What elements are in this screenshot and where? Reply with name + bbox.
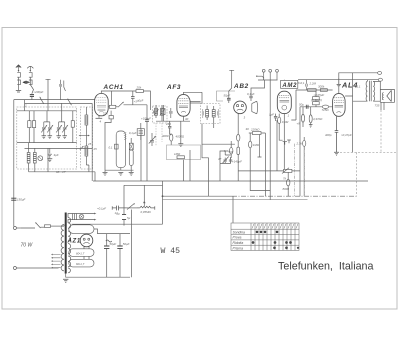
pilot lamp wires [68, 214, 95, 223]
dashed line right [340, 110, 397, 196]
svg-text:AF3: AF3 [166, 84, 181, 91]
svg-text:5µ: 5µ [127, 216, 131, 220]
AC marks [106, 240, 112, 242]
speaker plug rings [378, 71, 383, 81]
fuse [45, 225, 61, 228]
svg-text:22k: 22k [102, 111, 108, 115]
svg-text:≈0,1µF: ≈0,1µF [97, 207, 106, 211]
capacitor 100pF grid [131, 91, 135, 105]
label 4.37k [313, 117, 323, 121]
label 1u [117, 211, 121, 215]
svg-text:W 45: W 45 [161, 247, 181, 256]
AF3 left resistor [162, 105, 165, 121]
winding loop b [69, 259, 94, 267]
wire tap out [25, 147, 93, 149]
oscillator box dashed [80, 107, 92, 169]
wave trap arrow [23, 81, 31, 84]
label 70W [21, 242, 34, 248]
pin label 3 [244, 115, 246, 119]
dashdot verticals right [295, 144, 305, 197]
table header ticks [252, 224, 298, 229]
label 400pF [325, 133, 332, 137]
osc coil L4 [85, 143, 89, 165]
cap 400pF AL4 [335, 116, 339, 152]
svg-text:50µF: 50µF [110, 242, 117, 246]
svg-text:50pF: 50pF [224, 94, 231, 98]
filament loop top [69, 225, 94, 234]
label 50u [299, 103, 304, 107]
svg-text:60•1,7: 60•1,7 [76, 252, 85, 256]
svg-text:0,95MΩ: 0,95MΩ [141, 210, 152, 214]
socket jacks antenna [17, 73, 32, 85]
svg-text:ACH1: ACH1 [103, 84, 124, 91]
wire AB2 grid row [202, 143, 235, 145]
label 0.1M AM2 [282, 120, 289, 124]
wire to bus [31, 96, 33, 99]
label 0.1 top [297, 81, 305, 85]
capacitor 200pF [30, 95, 34, 97]
svg-text:≈100µF: ≈100µF [133, 98, 144, 104]
svg-text:25: 25 [93, 147, 98, 151]
label 735 [375, 103, 380, 107]
caps 47+140pF [220, 151, 232, 164]
resistor 50k b [230, 141, 233, 158]
coupling arrow [79, 135, 90, 137]
arrow tap exit [80, 146, 84, 150]
wire speaker down [381, 102, 384, 110]
label 3000 [162, 134, 169, 138]
label ACH1 [103, 84, 124, 91]
trimmer osc [149, 136, 156, 146]
speaker voice coil [382, 93, 383, 100]
label AB2 [233, 83, 249, 90]
label 0.1uF AB2 [247, 92, 255, 96]
ground AL4 [334, 152, 339, 155]
svg-text:1MΩ: 1MΩ [253, 143, 260, 147]
label 7k [283, 177, 287, 181]
padder block [129, 143, 133, 150]
ground osc [118, 172, 123, 175]
svg-text:0,1µF: 0,1µF [129, 131, 137, 135]
headphone symbol [252, 101, 258, 114]
vertical x124 [123, 185, 125, 225]
label 25 [87, 142, 92, 146]
svg-text:≈0,05µF: ≈0,05µF [314, 93, 325, 97]
switch osc [118, 102, 147, 120]
resistor 1M vert [249, 133, 252, 148]
volume pot cap [112, 206, 126, 211]
pin label 2 [24, 104, 27, 108]
wires output transformer [345, 73, 380, 153]
antenna terminal [16, 65, 21, 72]
label AF3 [166, 84, 181, 91]
cap 263 [168, 121, 171, 134]
pot left terminal [111, 206, 113, 210]
B+ wire [94, 229, 130, 234]
bus y199 [163, 199, 308, 201]
arrow mains [127, 203, 138, 210]
label 1uF AM2 [269, 112, 274, 116]
transformer primary [61, 225, 64, 271]
IF1 trimmer arrows [154, 109, 165, 115]
label 140pF [232, 159, 242, 163]
svg-text:70 W: 70 W [21, 242, 34, 248]
wire box row [17, 142, 77, 144]
wire C4 top [59, 111, 65, 122]
label 0.1uF osc [129, 131, 137, 135]
svg-text:3: 3 [244, 115, 246, 119]
ground C4b [62, 136, 67, 139]
ground x131 [129, 170, 134, 175]
svg-text:(0,05µF): (0,05µF) [311, 98, 322, 102]
resistor bias a [302, 107, 305, 127]
svg-text:+8: +8 [297, 122, 301, 126]
pilot lamp [79, 214, 84, 219]
coil L2 [33, 148, 36, 163]
pin label 25b [93, 147, 98, 151]
IF1 cap a [153, 108, 156, 115]
capacitor 100pF osc [145, 104, 150, 146]
cathode T bar [96, 117, 103, 119]
svg-text:1MΩ: 1MΩ [174, 152, 181, 156]
label 30 [246, 127, 250, 131]
band switch S1b [67, 98, 71, 105]
label W45 [161, 247, 181, 256]
label 150uF [17, 198, 25, 202]
IF can 2 dashed [201, 104, 220, 124]
tube AL4 [333, 94, 346, 117]
resistor in loop [115, 144, 119, 149]
IF2 cap b [218, 109, 219, 118]
verticals mid [48, 114, 284, 223]
svg-text:60…17: 60…17 [56, 170, 66, 174]
wire filter right [84, 210, 132, 278]
svg-text:0,1M: 0,1M [282, 120, 289, 124]
label 263 [165, 122, 171, 126]
label +8 [297, 122, 301, 126]
svg-text:30: 30 [185, 117, 189, 121]
wire earth branch [30, 77, 33, 94]
filter cap 2 [117, 234, 122, 278]
cap 150uF [11, 198, 16, 200]
wire ACH1 plate right [190, 101, 201, 103]
label 20k plate [136, 86, 142, 90]
wire plate to C [143, 91, 150, 104]
label 1.1 [357, 84, 361, 88]
ground x105 [103, 170, 108, 175]
wire ACH1 grid stubs [99, 91, 152, 170]
output transformer core [369, 81, 371, 101]
label 0.1uF mains [97, 207, 106, 211]
label 200pF [34, 90, 44, 94]
svg-text:3µF: 3µF [54, 153, 59, 157]
resistor 20k plate [136, 90, 143, 93]
wire speaker line2 [298, 79, 378, 81]
resistor 0.1M AM2 [278, 114, 283, 141]
cap on x124 [122, 215, 126, 220]
label AZ1 [67, 239, 81, 245]
tube AZ1 [80, 234, 93, 247]
svg-text:1µF: 1µF [269, 112, 274, 116]
ground transformer [63, 279, 68, 282]
mains plug bottom [13, 267, 58, 270]
resistor R2a [28, 111, 31, 143]
ground AF3 [178, 144, 183, 147]
resistor R3 [71, 111, 74, 143]
label AM2 box [281, 80, 298, 88]
filter cap 1 [104, 234, 109, 278]
box 0.05uF a [313, 91, 320, 99]
speaker frame [380, 90, 394, 103]
svg-text:X•0,1: X•0,1 [297, 81, 305, 85]
mains plug top [13, 227, 21, 230]
svg-text:50µ: 50µ [299, 103, 304, 107]
svg-text:0,1: 0,1 [109, 145, 113, 149]
resistor 2.7k [303, 137, 306, 196]
resistor 4000 [170, 134, 173, 145]
terminal T [229, 70, 234, 94]
trimmer C3a [41, 122, 47, 136]
stub terminal 220k [258, 135, 262, 158]
wire x300 down [299, 107, 301, 196]
label 1M vert [253, 143, 260, 147]
label 50k AB2 [229, 150, 234, 154]
resistor 40 [108, 105, 118, 108]
phono input stub [256, 76, 264, 78]
ground antenna [16, 91, 21, 93]
svg-text:AL4: AL4 [341, 81, 358, 90]
tube AM2 [277, 91, 291, 113]
IF1 coil b [161, 108, 164, 115]
tube AF3 [177, 95, 190, 117]
label 1M box [174, 152, 181, 156]
label loop a [76, 252, 85, 256]
wire AL4 top [339, 73, 378, 94]
grid return wire [250, 148, 270, 200]
svg-text:220kΩ: 220kΩ [250, 128, 260, 132]
label 0.1 loop [109, 145, 113, 149]
cap 1uF AM2 [274, 114, 277, 121]
grid line AL4 [291, 90, 332, 120]
coupling cap C2 [59, 80, 66, 100]
resistor bias b [309, 107, 312, 125]
heater wire [72, 181, 163, 224]
IF1 coil a [155, 108, 158, 115]
label 300k [318, 85, 325, 89]
title Telefunken Italiana [278, 261, 374, 273]
wire cathode row [300, 106, 333, 108]
table dots row1 [256, 231, 279, 234]
svg-text:Sondina: Sondina [233, 230, 246, 234]
tube ACH1 [95, 94, 109, 116]
svg-text:400p: 400p [325, 133, 332, 137]
label 60-17 [56, 170, 66, 174]
IF can 1 dashed [153, 106, 167, 123]
svg-text:30: 30 [246, 127, 250, 131]
coil L1 [27, 143, 30, 163]
padder box [137, 129, 144, 136]
IF2 coil a [206, 110, 209, 117]
tuning box dashed [17, 107, 77, 169]
label 50pF [224, 94, 231, 98]
label 47 [218, 157, 222, 161]
svg-text:AM2: AM2 [281, 83, 297, 89]
cap 0.1uF AB2 [249, 93, 252, 102]
pin label 1 [288, 114, 290, 118]
cap 50pF [227, 94, 231, 103]
jack right [283, 140, 291, 145]
label 220k [250, 128, 260, 132]
IF1 shield dashes [156, 123, 162, 146]
svg-text:1µ: 1µ [117, 211, 121, 215]
resistor grid a [308, 89, 317, 92]
svg-text:4: 4 [100, 120, 102, 124]
tone pot [238, 168, 300, 174]
box 0.05uF b [313, 100, 320, 107]
label 0.47uF [341, 133, 352, 137]
label 0.95M [141, 210, 152, 214]
output transformer secondary [373, 81, 374, 101]
trimmer C4b [62, 122, 68, 136]
ground L-box [47, 159, 52, 162]
osc coil L3 [85, 107, 88, 143]
antenna coil tap [46, 79, 51, 99]
label 8000 [283, 187, 290, 191]
svg-text:263: 263 [165, 122, 171, 126]
label AL4 [341, 81, 358, 90]
resistor 22k [109, 111, 113, 119]
IF2 cap a [202, 109, 203, 118]
resistor 8000 [287, 172, 290, 196]
svg-text:Ridotta: Ridotta [233, 241, 244, 245]
svg-text:Telefunken, Italiana: Telefunken, Italiana [278, 261, 374, 273]
cap 50u AL4 [306, 105, 308, 109]
svg-text:≈200pF: ≈200pF [34, 90, 44, 94]
bus y196 dashdot [232, 195, 357, 197]
svg-text:1,1: 1,1 [357, 84, 361, 88]
svg-text:300k: 300k [318, 85, 325, 89]
label 4000 [176, 134, 185, 138]
IF2 coil b [212, 110, 215, 117]
svg-text:3000: 3000 [162, 134, 169, 138]
resistor R2b [32, 111, 35, 143]
grid box AB2 [167, 145, 201, 160]
wire box top row [17, 100, 77, 111]
svg-text:≈0,47µF: ≈0,47µF [341, 133, 352, 137]
left bus vertical [13, 100, 15, 227]
svg-text:4,37kΩ: 4,37kΩ [313, 117, 323, 121]
phono pin 3 [276, 69, 279, 80]
resistor grid b [320, 89, 327, 92]
AF3 left cap [169, 108, 173, 118]
svg-text:50µF: 50µF [123, 242, 130, 246]
label 0.05uF box [314, 93, 325, 97]
ground C3a [42, 136, 47, 139]
svg-text:Prova: Prova [233, 236, 242, 240]
trimmer C4a [56, 122, 62, 136]
svg-text:Prisma: Prisma [233, 246, 244, 250]
bottom return wire [66, 274, 130, 278]
transformer secondary windings [68, 218, 71, 273]
svg-text:150µF: 150µF [17, 198, 25, 202]
table row labels [233, 230, 246, 250]
bus y181 [93, 180, 368, 182]
label 5u [127, 216, 131, 220]
resistor 1M in box [177, 156, 184, 159]
resistor cathode AL4 [322, 105, 328, 108]
label 1u pot [115, 211, 119, 215]
svg-text:60•1,7: 60•1,7 [76, 262, 85, 266]
svg-text:20k: 20k [136, 86, 142, 90]
svg-text:+100pF: +100pF [141, 116, 151, 120]
winding loop a [69, 249, 94, 257]
table dots row3 [252, 241, 292, 244]
wiper line [124, 184, 163, 186]
label 2.2M [309, 82, 317, 86]
earth terminal [27, 66, 33, 72]
pilot resistor [73, 214, 77, 220]
label 100pF osc [141, 116, 151, 120]
label AM2 [281, 83, 297, 89]
svg-text:735: 735 [375, 103, 380, 107]
svg-text:2: 2 [24, 104, 27, 108]
wire AF3 plate [184, 92, 203, 103]
IF1 wires [156, 105, 162, 121]
label 0.05uF b [311, 98, 322, 102]
capacitor 5uF [48, 148, 52, 158]
wire osc bottom [105, 138, 134, 170]
bus y103.5 [25, 100, 93, 104]
junction dot [162, 195, 164, 197]
osc coil loop [116, 131, 126, 168]
pin label 4 [100, 120, 102, 124]
speaker cone [387, 90, 392, 101]
tube AB2 [234, 101, 247, 114]
wire coil bottoms [29, 163, 95, 172]
trimmer C3b [47, 122, 53, 136]
resistor 220k [249, 132, 266, 135]
phono bus [251, 78, 278, 142]
transformer taps [51, 254, 60, 268]
label 100pF grid [133, 98, 144, 104]
power transformer core [65, 213, 67, 274]
volume pot [137, 185, 155, 208]
AVC wire [91, 103, 93, 181]
switch wafer [38, 156, 43, 161]
output transformer primary [366, 81, 367, 101]
svg-text:AB2: AB2 [233, 83, 249, 90]
pin label 30 [185, 117, 189, 121]
mains switch [21, 222, 45, 228]
padder capsule [129, 150, 133, 166]
wire primary top [60, 225, 64, 227]
phono pin 2 [269, 69, 272, 80]
label 5uF [54, 153, 59, 157]
label 725 [322, 108, 330, 112]
wire AF3 cathode row [156, 116, 190, 143]
pot right terminal [154, 206, 156, 210]
label 50uF b [123, 242, 130, 246]
wire antenna down [18, 77, 20, 90]
ground C4a [56, 136, 61, 139]
ground bias [309, 125, 313, 128]
IF2 wires [202, 92, 214, 123]
main bus y100 [14, 99, 95, 101]
svg-text:+140pF: +140pF [232, 159, 242, 163]
phono pin 1 [262, 69, 265, 80]
svg-text:4000Ω: 4000Ω [176, 134, 185, 138]
cap AM2 link [306, 80, 307, 90]
